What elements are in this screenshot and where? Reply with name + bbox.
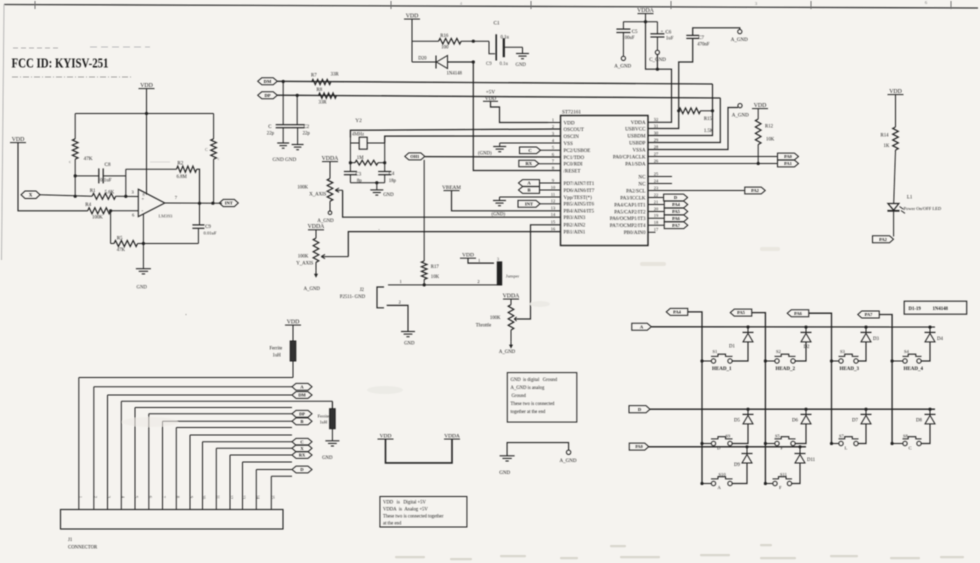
- svg-text:HEAD_4: HEAD_4: [904, 367, 924, 372]
- svg-text:A_GND is analog: A_GND is analog: [511, 386, 546, 391]
- svg-text:OSCOUT: OSCOUT: [564, 127, 585, 133]
- svg-text:A_GND: A_GND: [499, 350, 516, 355]
- svg-text:D8: D8: [916, 419, 922, 424]
- svg-text:C2: C2: [304, 125, 310, 130]
- svg-text:1M: 1M: [357, 156, 364, 161]
- capacitor C3 22p: [296, 95, 298, 124]
- svg-text:22p: 22p: [303, 132, 311, 137]
- svg-text:13: 13: [242, 495, 246, 499]
- svg-text:47K: 47K: [84, 156, 93, 162]
- scan noise marks: [395, 556, 425, 558]
- svg-text:PA7: PA7: [865, 312, 874, 317]
- svg-text:Vpp/TEST(*): Vpp/TEST(*): [564, 194, 593, 201]
- svg-text:A: A: [640, 324, 644, 329]
- svg-text:6: 6: [148, 496, 152, 498]
- svg-text:16: 16: [551, 226, 556, 231]
- resistor R4 100K: [88, 208, 111, 214]
- diode D4: [929, 327, 931, 332]
- node A (matrix row 1): [632, 323, 652, 330]
- resistor R12 10K: [757, 109, 759, 119]
- svg-text:7: 7: [552, 159, 555, 164]
- wire R16 to C1 / reset node: [461, 40, 489, 42]
- test point A_GND (C5): [621, 56, 625, 60]
- svg-text:PA7: PA7: [672, 223, 681, 228]
- svg-text:30: 30: [654, 130, 659, 135]
- wire S8 connections: [892, 443, 903, 445]
- ground GND (FB2): [325, 440, 339, 442]
- svg-text:PA4/CAP1/IT1: PA4/CAP1/IT1: [614, 202, 646, 208]
- svg-text:D5: D5: [734, 419, 740, 424]
- wire R1 to op-amp +input pin 3: [116, 195, 139, 197]
- svg-text:0.1u: 0.1u: [500, 62, 509, 67]
- svg-text:D: D: [674, 195, 678, 200]
- svg-text:8: 8: [552, 165, 555, 170]
- svg-text:A: A: [300, 384, 304, 389]
- wire PA6 column: [809, 313, 832, 443]
- svg-text:D11: D11: [807, 458, 816, 463]
- svg-text:+5V: +5V: [486, 90, 496, 96]
- svg-text:C: C: [909, 446, 912, 451]
- jumper J3: [497, 262, 501, 285]
- svg-text:100: 100: [441, 46, 449, 51]
- arrow A_GND (Y axis): [315, 262, 317, 271]
- wire J2 pin1 row: [388, 284, 497, 286]
- test point A_GND (X axis): [329, 201, 331, 211]
- svg-text:L: L: [845, 446, 848, 451]
- svg-text:A: A: [527, 181, 531, 186]
- svg-text:3: 3: [132, 190, 135, 195]
- svg-text:NC: NC: [638, 174, 646, 180]
- svg-text:18p: 18p: [389, 179, 397, 184]
- svg-text:USBVCC: USBVCC: [625, 126, 646, 132]
- svg-text:1: 1: [78, 496, 82, 498]
- svg-text:A_GND: A_GND: [614, 65, 631, 70]
- svg-text:VDD: VDD: [564, 120, 575, 126]
- svg-text:D2: D2: [804, 345, 810, 350]
- svg-text:ST72161: ST72161: [562, 110, 581, 116]
- ferrite bead FB1 1uH: [292, 325, 294, 341]
- svg-text:PD6/AIN6/IT7: PD6/AIN6/IT7: [564, 188, 595, 194]
- diode D5: [747, 409, 749, 414]
- svg-text:X: X: [300, 446, 304, 451]
- wire VDD stem into op-amp pin 8: [146, 89, 148, 195]
- svg-text:3: 3: [107, 496, 111, 498]
- svg-text:PA6/OCMP1/IT3: PA6/OCMP1/IT3: [610, 216, 646, 222]
- wire OH1 to PC1/TDO pin 6: [425, 156, 561, 158]
- svg-text:S5: S5: [775, 434, 780, 439]
- svg-text:A: A: [718, 485, 722, 490]
- svg-text:INT: INT: [525, 201, 533, 206]
- svg-text:c: c: [218, 156, 220, 161]
- node PA2 (pin 23): [745, 187, 766, 194]
- wire USBDP vertical: [648, 98, 720, 143]
- svg-text:C4: C4: [389, 172, 395, 177]
- svg-text:GND: GND: [137, 286, 148, 291]
- svg-text:3: 3: [497, 257, 499, 262]
- svg-text:24: 24: [654, 178, 659, 183]
- svg-text:R17: R17: [431, 265, 440, 270]
- svg-text:S2: S2: [776, 349, 782, 354]
- svg-text:0.1uF: 0.1uF: [100, 179, 112, 184]
- capacitor C9 0.01uF: [199, 203, 201, 225]
- svg-text:F: F: [781, 446, 784, 451]
- node PA1 (pin 26): [778, 160, 799, 167]
- IC U2 right pin numbers: [654, 117, 659, 232]
- svg-text:RX: RX: [299, 453, 306, 458]
- svg-text:S3: S3: [840, 349, 846, 354]
- wire X_AXIS wiper to PB3/AIN3 pin 14: [343, 190, 561, 217]
- svg-text:29: 29: [654, 137, 659, 142]
- svg-text:15: 15: [271, 495, 275, 499]
- svg-text:PB1/AIN1: PB1/AIN1: [564, 229, 586, 235]
- potentiometer Throttle 100K: [510, 299, 512, 305]
- svg-text:-: -: [142, 208, 144, 214]
- svg-text:32: 32: [654, 117, 658, 122]
- wire C7 to USBVCC: [648, 38, 693, 128]
- wire D20 to /RESET pin 8: [448, 62, 561, 171]
- svg-text:R14: R14: [881, 134, 890, 139]
- svg-text:OSCIN: OSCIN: [564, 134, 580, 140]
- svg-text:at the end: at the end: [383, 522, 402, 527]
- svg-text:P2511- GND: P2511- GND: [340, 295, 366, 300]
- svg-text:3: 3: [552, 131, 555, 136]
- node B (J1): [292, 418, 312, 425]
- wire PA2/SCL to node: [648, 190, 745, 192]
- svg-text:4: 4: [121, 496, 125, 498]
- svg-text:c: c: [69, 159, 71, 164]
- svg-text:C3: C3: [356, 173, 362, 178]
- svg-text:OH1: OH1: [410, 154, 419, 159]
- svg-text:S7: S7: [839, 434, 844, 439]
- diode D11: [799, 447, 801, 454]
- svg-text:21: 21: [654, 199, 658, 204]
- node PA6 (matrix column 3): [787, 310, 809, 317]
- svg-text:26: 26: [654, 158, 659, 163]
- wires J1 fan-out: [79, 377, 293, 379]
- ground GND (C1): [516, 53, 529, 55]
- IC U2 left pin names: [564, 120, 595, 235]
- diode D7: [865, 409, 867, 414]
- wire S11 connections: [765, 483, 773, 485]
- svg-text:9: 9: [189, 496, 193, 498]
- svg-text:These two is connected: These two is connected: [511, 402, 556, 407]
- wire VDDA feed to pin 32: [646, 22, 672, 123]
- wire PA4 column: [688, 312, 702, 484]
- svg-text:J1: J1: [68, 538, 73, 543]
- diode D20 1N4148: [412, 61, 436, 63]
- svg-text:2: 2: [552, 124, 554, 129]
- node INT (pin 12): [518, 200, 540, 207]
- wire S5 connections: [765, 443, 775, 445]
- svg-text:B: B: [301, 419, 304, 424]
- wire OH1 down to R17: [423, 160, 425, 261]
- svg-text:1: 1: [478, 258, 480, 263]
- svg-text:NC: NC: [638, 181, 646, 187]
- svg-text:Y2: Y2: [355, 118, 362, 124]
- node DP: [258, 92, 278, 99]
- svg-text:L1: L1: [907, 196, 913, 201]
- node DP (J1): [292, 410, 312, 417]
- wire OSCIN line: [385, 136, 561, 143]
- svg-text:B: B: [527, 188, 530, 193]
- svg-text:DP: DP: [264, 93, 270, 98]
- svg-text:31: 31: [654, 123, 658, 128]
- svg-text:C9: C9: [486, 62, 492, 67]
- wire PA1/SDA to node: [648, 163, 778, 165]
- svg-text:Throttle: Throttle: [476, 323, 491, 328]
- svg-text:HEAD_2: HEAD_2: [776, 367, 796, 372]
- svg-text:D3: D3: [873, 337, 879, 342]
- resistor R14 1K: [895, 95, 897, 127]
- svg-text:25: 25: [654, 171, 659, 176]
- svg-text:6.8M: 6.8M: [177, 175, 188, 180]
- wire row PA0: [649, 446, 806, 448]
- ground GND (Vpp): [493, 200, 506, 202]
- node PA0 (matrix row 3): [629, 443, 649, 450]
- wire S3 connections: [832, 360, 840, 362]
- wire VDD to pin 1: [491, 101, 549, 122]
- resistor R1 5.6K: [92, 193, 116, 199]
- svg-text:VDDA: VDDA: [631, 120, 646, 126]
- ground GND (op-amp): [136, 268, 151, 270]
- wire op-amp output to INT: [165, 202, 222, 204]
- svg-text:470nF: 470nF: [697, 43, 710, 48]
- svg-text:D20: D20: [418, 57, 427, 62]
- node D (pin 22): [648, 197, 663, 199]
- capacitor C6 1uF: [656, 22, 658, 34]
- wire J2 pin2 to ground: [387, 284, 389, 286]
- svg-text:PA5/CAP2/IT2: PA5/CAP2/IT2: [614, 209, 646, 215]
- svg-text:11: 11: [216, 495, 220, 499]
- svg-text:PA3/ICCLK: PA3/ICCLK: [620, 195, 646, 201]
- svg-text:C7: C7: [698, 36, 704, 41]
- svg-text:100K: 100K: [297, 186, 308, 191]
- svg-text:Y_AXIS: Y_AXIS: [296, 261, 313, 266]
- svg-text:HEAD_1: HEAD_1: [712, 367, 732, 372]
- svg-text:Power On/OFF LED: Power On/OFF LED: [904, 206, 942, 211]
- svg-text:6: 6: [552, 152, 555, 157]
- svg-text:A_GND: A_GND: [560, 459, 577, 464]
- node INT (op-amp output): [219, 199, 238, 206]
- svg-text:S1: S1: [713, 349, 719, 354]
- svg-text:R8: R8: [317, 88, 323, 93]
- wire op-amp top rail: [75, 113, 213, 115]
- wire C6 to USBVCC pin 31: [656, 55, 658, 70]
- svg-text:19: 19: [654, 213, 659, 218]
- node PA7 (matrix column 4): [858, 311, 880, 318]
- node OH1: [405, 153, 425, 160]
- svg-text:22p: 22p: [267, 132, 275, 137]
- svg-text:47K: 47K: [117, 248, 126, 253]
- svg-text:D1-19: D1-19: [909, 307, 922, 312]
- wire VBEAM to PB4/AIN4 pin 13: [452, 191, 561, 211]
- svg-text:R4: R4: [85, 203, 91, 208]
- svg-text:1uF: 1uF: [666, 36, 674, 41]
- wire OSCOUT line: [350, 129, 560, 138]
- svg-text:.: .: [378, 224, 380, 232]
- svg-text:+: +: [142, 196, 145, 201]
- svg-text:PA6: PA6: [794, 311, 803, 316]
- wire row A: [651, 326, 935, 328]
- svg-text:9: 9: [552, 178, 555, 183]
- svg-text:PA6: PA6: [672, 216, 681, 221]
- svg-text:S4: S4: [904, 349, 910, 354]
- ground GND (tie): [507, 443, 568, 456]
- wire R14 to LED: [894, 150, 896, 204]
- capacitor C8 0.1uF: [75, 175, 99, 177]
- svg-text:A_GND: A_GND: [304, 287, 321, 292]
- resistor R9 1M: [350, 162, 355, 164]
- svg-text:GND: GND: [516, 63, 527, 68]
- svg-text:+: +: [661, 28, 664, 33]
- svg-text:1N4148: 1N4148: [933, 307, 949, 312]
- node PA4 (pin 21): [648, 204, 664, 206]
- wire Y_AXIS wiper to PB1/AIN1 pin 16: [348, 232, 560, 257]
- svg-text:28: 28: [654, 144, 659, 149]
- resistor R8 33R: [319, 93, 337, 98]
- svg-text:A_GND: A_GND: [317, 219, 334, 224]
- svg-text:18: 18: [654, 220, 659, 225]
- svg-text:27: 27: [654, 151, 659, 156]
- svg-text:5: 5: [134, 496, 138, 498]
- svg-text:100K: 100K: [490, 316, 501, 321]
- LED L1 Power On/Off: [888, 204, 899, 211]
- svg-text:1N4148: 1N4148: [447, 72, 463, 77]
- test point A_GND (VSSA): [738, 104, 742, 108]
- svg-text:USBDM: USBDM: [627, 133, 646, 139]
- svg-text:PC0/RDI: PC0/RDI: [564, 162, 583, 168]
- svg-text:Ferrite: Ferrite: [318, 414, 330, 419]
- svg-text:4: 4: [552, 138, 555, 143]
- svg-text:S9: S9: [726, 434, 731, 439]
- svg-text:PA1: PA1: [784, 161, 792, 166]
- svg-text:2: 2: [477, 279, 479, 284]
- wire VDD to jumper: [468, 258, 494, 263]
- svg-text:1uH: 1uH: [273, 354, 282, 359]
- resistor R16 100: [439, 38, 462, 44]
- svg-text:C5: C5: [632, 30, 638, 35]
- svg-text:USBDP: USBDP: [629, 140, 646, 146]
- svg-text:8p: 8p: [357, 179, 362, 184]
- test point C_GND (C6): [655, 50, 659, 54]
- svg-text:12: 12: [551, 199, 555, 204]
- sheet border top: [4, 5, 978, 9]
- svg-text:PA0/CP1ACLK: PA0/CP1ACLK: [613, 154, 646, 160]
- svg-text:C: C: [300, 439, 303, 444]
- svg-text:R16: R16: [440, 34, 449, 39]
- svg-text:Ground: Ground: [512, 394, 527, 399]
- diode D2: [805, 327, 807, 332]
- svg-text:100uF: 100uF: [622, 36, 635, 41]
- svg-text:X: X: [29, 194, 33, 199]
- node X: [21, 191, 40, 199]
- svg-text:2: 2: [93, 496, 97, 498]
- svg-text:PB0/AIN0: PB0/AIN0: [624, 230, 646, 236]
- wire R4 to op-amp -input pin 6: [111, 210, 139, 212]
- svg-text:CONNECTOR: CONNECTOR: [68, 546, 98, 551]
- node PA2 (LED): [873, 236, 894, 243]
- capacitor C3 8p: [349, 163, 351, 172]
- svg-text:PA5: PA5: [672, 209, 681, 214]
- svg-text:R7: R7: [311, 73, 317, 78]
- svg-text:PD7/AIN7/IT1: PD7/AIN7/IT1: [564, 181, 595, 187]
- resistor R15 1.5K: [679, 108, 701, 114]
- wire DP line to USBDP: [277, 95, 720, 98]
- svg-text:PB2/AIN2: PB2/AIN2: [564, 223, 586, 229]
- svg-text:1uH: 1uH: [320, 420, 328, 425]
- node PA7 (pin 18): [648, 224, 664, 226]
- svg-text:10: 10: [551, 185, 556, 190]
- svg-text:20: 20: [654, 206, 659, 211]
- svg-text:PB3/AIN3: PB3/AIN3: [564, 215, 586, 221]
- svg-text:0.1u: 0.1u: [501, 35, 510, 40]
- svg-text:PA2: PA2: [879, 237, 887, 242]
- svg-text:22: 22: [654, 192, 658, 197]
- wire S1 connections: [702, 360, 712, 362]
- node PA4 (matrix column 1): [666, 308, 688, 315]
- svg-text:1: 1: [552, 117, 554, 122]
- svg-text:GND is digital Ground: GND is digital Ground: [511, 378, 558, 383]
- svg-text:PC2/USBOE: PC2/USBOE: [564, 148, 591, 154]
- svg-text:.: .: [185, 309, 187, 317]
- svg-text:10K: 10K: [431, 275, 440, 280]
- svg-text:PA4: PA4: [672, 202, 681, 207]
- diode D3: [865, 327, 867, 332]
- node DM: [258, 78, 278, 85]
- svg-text:A_GND: A_GND: [731, 38, 748, 43]
- wire crystal caps to ground: [350, 182, 384, 184]
- node DM (J1): [292, 392, 312, 399]
- node A (pin 9): [519, 180, 540, 187]
- svg-text:C: C: [268, 125, 271, 130]
- capacitor C7 470nF: [686, 34, 699, 36]
- svg-text:1: 1: [400, 279, 402, 284]
- connector J2 P2511-GND bracket: [377, 287, 384, 308]
- node A (J1): [292, 383, 312, 390]
- IC U2 pin stubs: [548, 122, 561, 124]
- svg-text:RX: RX: [525, 161, 532, 166]
- svg-text:7: 7: [175, 195, 178, 200]
- svg-text:DM: DM: [298, 393, 306, 398]
- J1 pin numbers: [78, 495, 275, 499]
- svg-text:(GND): (GND): [492, 213, 506, 218]
- svg-text:PB5/AIN5/IT6: PB5/AIN5/IT6: [564, 202, 595, 208]
- diode D8: [929, 409, 931, 414]
- svg-text:Jumper: Jumper: [506, 274, 520, 279]
- svg-text:GND: GND: [322, 456, 333, 461]
- wire VDD-VDDA tie: [386, 439, 453, 463]
- ground GND (crystal): [370, 189, 383, 191]
- svg-text:GND: GND: [404, 342, 415, 347]
- svg-text:D9: D9: [734, 463, 740, 468]
- wire op-amp ground stem: [142, 214, 144, 269]
- svg-text:13: 13: [551, 206, 556, 211]
- wire S7 connections: [832, 443, 840, 445]
- svg-text:5: 5: [552, 145, 555, 150]
- ground GND (J2): [401, 331, 415, 333]
- node RX (pin 7): [519, 160, 539, 167]
- svg-text:LM393: LM393: [159, 214, 173, 219]
- svg-text:C9: C9: [205, 225, 211, 230]
- connector J1 body: [61, 510, 284, 530]
- wire VSSA to A_GND test point: [648, 108, 738, 150]
- svg-text:These two is connected togethe: These two is connected together: [383, 515, 444, 520]
- wire PA0 to node: [648, 156, 778, 158]
- resistor R5 47K: [110, 211, 112, 244]
- svg-text:7: 7: [162, 496, 166, 498]
- wire Vpp/TEST pin 11 to ground: [500, 196, 561, 198]
- node B (pin 10): [519, 187, 540, 194]
